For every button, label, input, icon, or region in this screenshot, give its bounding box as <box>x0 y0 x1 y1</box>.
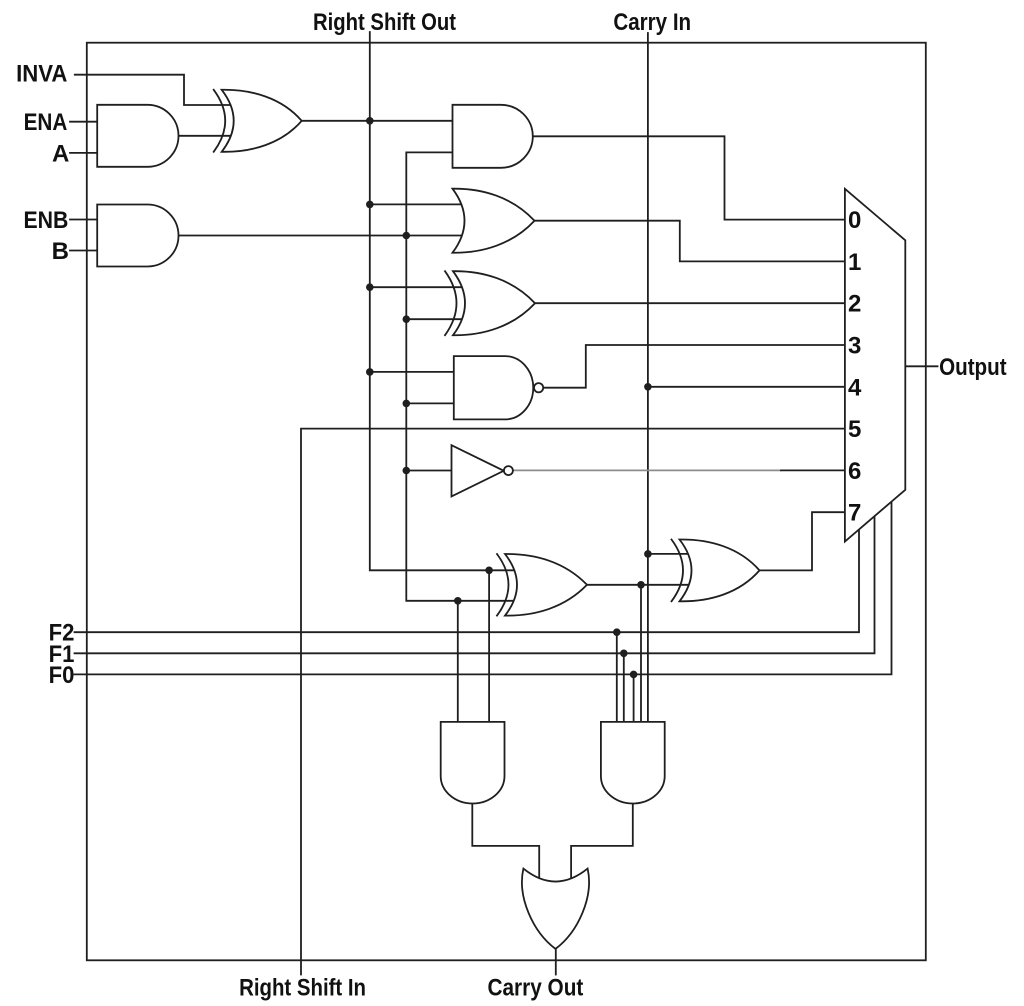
wire XOR U6 top input <box>370 286 470 288</box>
svg-text:A: A <box>52 140 69 167</box>
svg-text:2: 2 <box>848 291 861 318</box>
xor-gate U2 body <box>222 90 302 152</box>
and-gate U12 (down) <box>601 722 665 804</box>
wire AND U12 output to OR U13 right input <box>571 803 633 879</box>
svg-text:5: 5 <box>848 416 861 443</box>
wire A input <box>70 152 98 154</box>
wire B input <box>70 250 98 252</box>
xor-gate U9 back arc <box>497 554 509 616</box>
wire XOR U6 bottom input <box>406 318 470 320</box>
wire F0 input to mux select <box>75 502 892 674</box>
junction XOR U9 output branch <box>637 581 645 589</box>
junction F0 branch <box>630 671 638 679</box>
nand-gate U7 body <box>454 356 533 419</box>
wire Carry In branch to XOR U10 top input <box>648 553 690 555</box>
svg-text:3: 3 <box>848 333 861 360</box>
wire node N1 vertical from AND U3 lower input down then to XOR-B bottom input <box>406 152 520 600</box>
or-gate U13 (down, carry out) <box>522 869 589 949</box>
svg-text:F0: F0 <box>49 662 75 689</box>
wire F2 input to mux select <box>75 530 860 633</box>
junction on node N1 at AND U4 output <box>403 232 411 240</box>
wire F1 input to mux select <box>75 517 875 654</box>
wire Carry In vertical <box>647 33 649 722</box>
and-gate U4 (ENB/B) <box>97 205 178 267</box>
svg-text:ENA: ENA <box>24 109 68 136</box>
junction on RSO line at XOR U6 input <box>366 283 374 291</box>
xor-gate U6 back arc <box>445 271 457 335</box>
wire Right Shift In vertical then to mux input 5 <box>301 429 845 975</box>
and-gate U11 (down) <box>441 722 505 804</box>
svg-text:B: B <box>52 238 69 265</box>
svg-text:0: 0 <box>848 207 861 234</box>
and-gate U3 <box>453 105 533 168</box>
svg-text:4: 4 <box>848 374 862 401</box>
svg-text:Right Shift In: Right Shift In <box>239 975 366 1002</box>
wire NAND U7 output to mux input 3 <box>543 345 844 388</box>
outer box <box>87 43 926 961</box>
junction on Carry In at XOR U10 input <box>644 550 652 558</box>
wire F2 branch down to AND U12 <box>616 632 618 722</box>
nand-gate U7 bubble <box>534 383 543 392</box>
wire inverter U8 output to mux input 6 <box>781 469 845 471</box>
wire Carry Out from OR U13 <box>555 949 557 975</box>
wire XOR U10 output to mux input 7 <box>760 512 845 570</box>
svg-text:7: 7 <box>848 500 861 527</box>
xor-gate U6 body <box>453 271 535 335</box>
svg-text:ENB: ENB <box>24 207 69 234</box>
junction on node N1 at NAND U7 input <box>403 400 411 408</box>
wire F0 branch down to AND U12 <box>633 674 635 722</box>
wire inverter U8 output gray segment <box>513 469 781 471</box>
wire XOR U9 output to XOR U10 lower input <box>587 584 690 586</box>
wire NAND U7 top input <box>370 371 454 373</box>
wire branch down to AND U11 left input <box>457 601 459 722</box>
junction on node N1 at XOR U6 input <box>403 315 411 323</box>
svg-text:Output: Output <box>939 354 1007 381</box>
wire NAND U7 bottom input <box>406 402 454 404</box>
svg-text:Right Shift Out: Right Shift Out <box>313 9 456 36</box>
wire OR U5 top input <box>370 203 470 205</box>
junction on RSO line at NAND U7 input <box>366 368 374 376</box>
and-gate U1 (ENA/A) <box>97 105 178 167</box>
svg-text:1: 1 <box>848 249 861 276</box>
wire ENB input <box>70 219 98 221</box>
junction on node N1 at inverter U8 input <box>403 467 411 475</box>
junction on Carry In at mux input 4 <box>644 383 652 391</box>
xor-gate U10 back arc <box>672 540 684 602</box>
multiplexer MUX <box>845 189 905 542</box>
or-gate U5 <box>453 189 535 253</box>
wire Carry In branch to mux input 4 <box>648 386 845 388</box>
junction F1 branch <box>620 650 628 658</box>
wire Right Shift Out vertical then to XOR-B top input <box>370 32 520 570</box>
junction on RSO line at OR U5 input <box>366 201 374 209</box>
wire AND U1 output to XOR U2 lower input <box>178 135 232 137</box>
wire AND U11 output to OR U13 left input <box>472 803 539 879</box>
wire ENA input <box>70 121 98 123</box>
wire AND U3 output to mux input 0 <box>533 136 845 219</box>
svg-text:INVA: INVA <box>16 61 67 88</box>
inverter U8 bubble <box>504 466 513 475</box>
wire INVA input <box>75 75 232 105</box>
junction on RSO line at XOR U2 output <box>366 117 374 125</box>
inverter U8 triangle <box>452 445 504 496</box>
wire F1 branch down to AND U12 <box>623 653 625 722</box>
junction F2 branch <box>613 628 621 636</box>
xor-gate U10 body <box>680 539 760 601</box>
xor-gate U9 body <box>505 554 587 616</box>
wire XOR U2 output to AND U3 top input <box>302 120 453 122</box>
junction XOR U9 top input branch <box>485 567 493 575</box>
wire inverter U8 input <box>406 470 451 472</box>
wire OR U5 output to mux input 1 <box>535 221 845 262</box>
wire mux Output <box>906 365 938 367</box>
svg-text:Carry Out: Carry Out <box>488 975 584 1002</box>
wire XOR U9 output branch down to AND U12 input <box>640 585 642 722</box>
wire XOR U6 output to mux input 2 <box>535 302 845 304</box>
svg-text:Carry In: Carry In <box>613 9 691 36</box>
xor-gate U2 back arc <box>214 90 226 152</box>
wire branch down to AND U11 right input <box>488 570 490 722</box>
wire AND U4 output to OR U5 lower input <box>178 235 470 237</box>
svg-text:6: 6 <box>848 458 861 485</box>
junction XOR U9 bottom input branch <box>454 597 462 605</box>
